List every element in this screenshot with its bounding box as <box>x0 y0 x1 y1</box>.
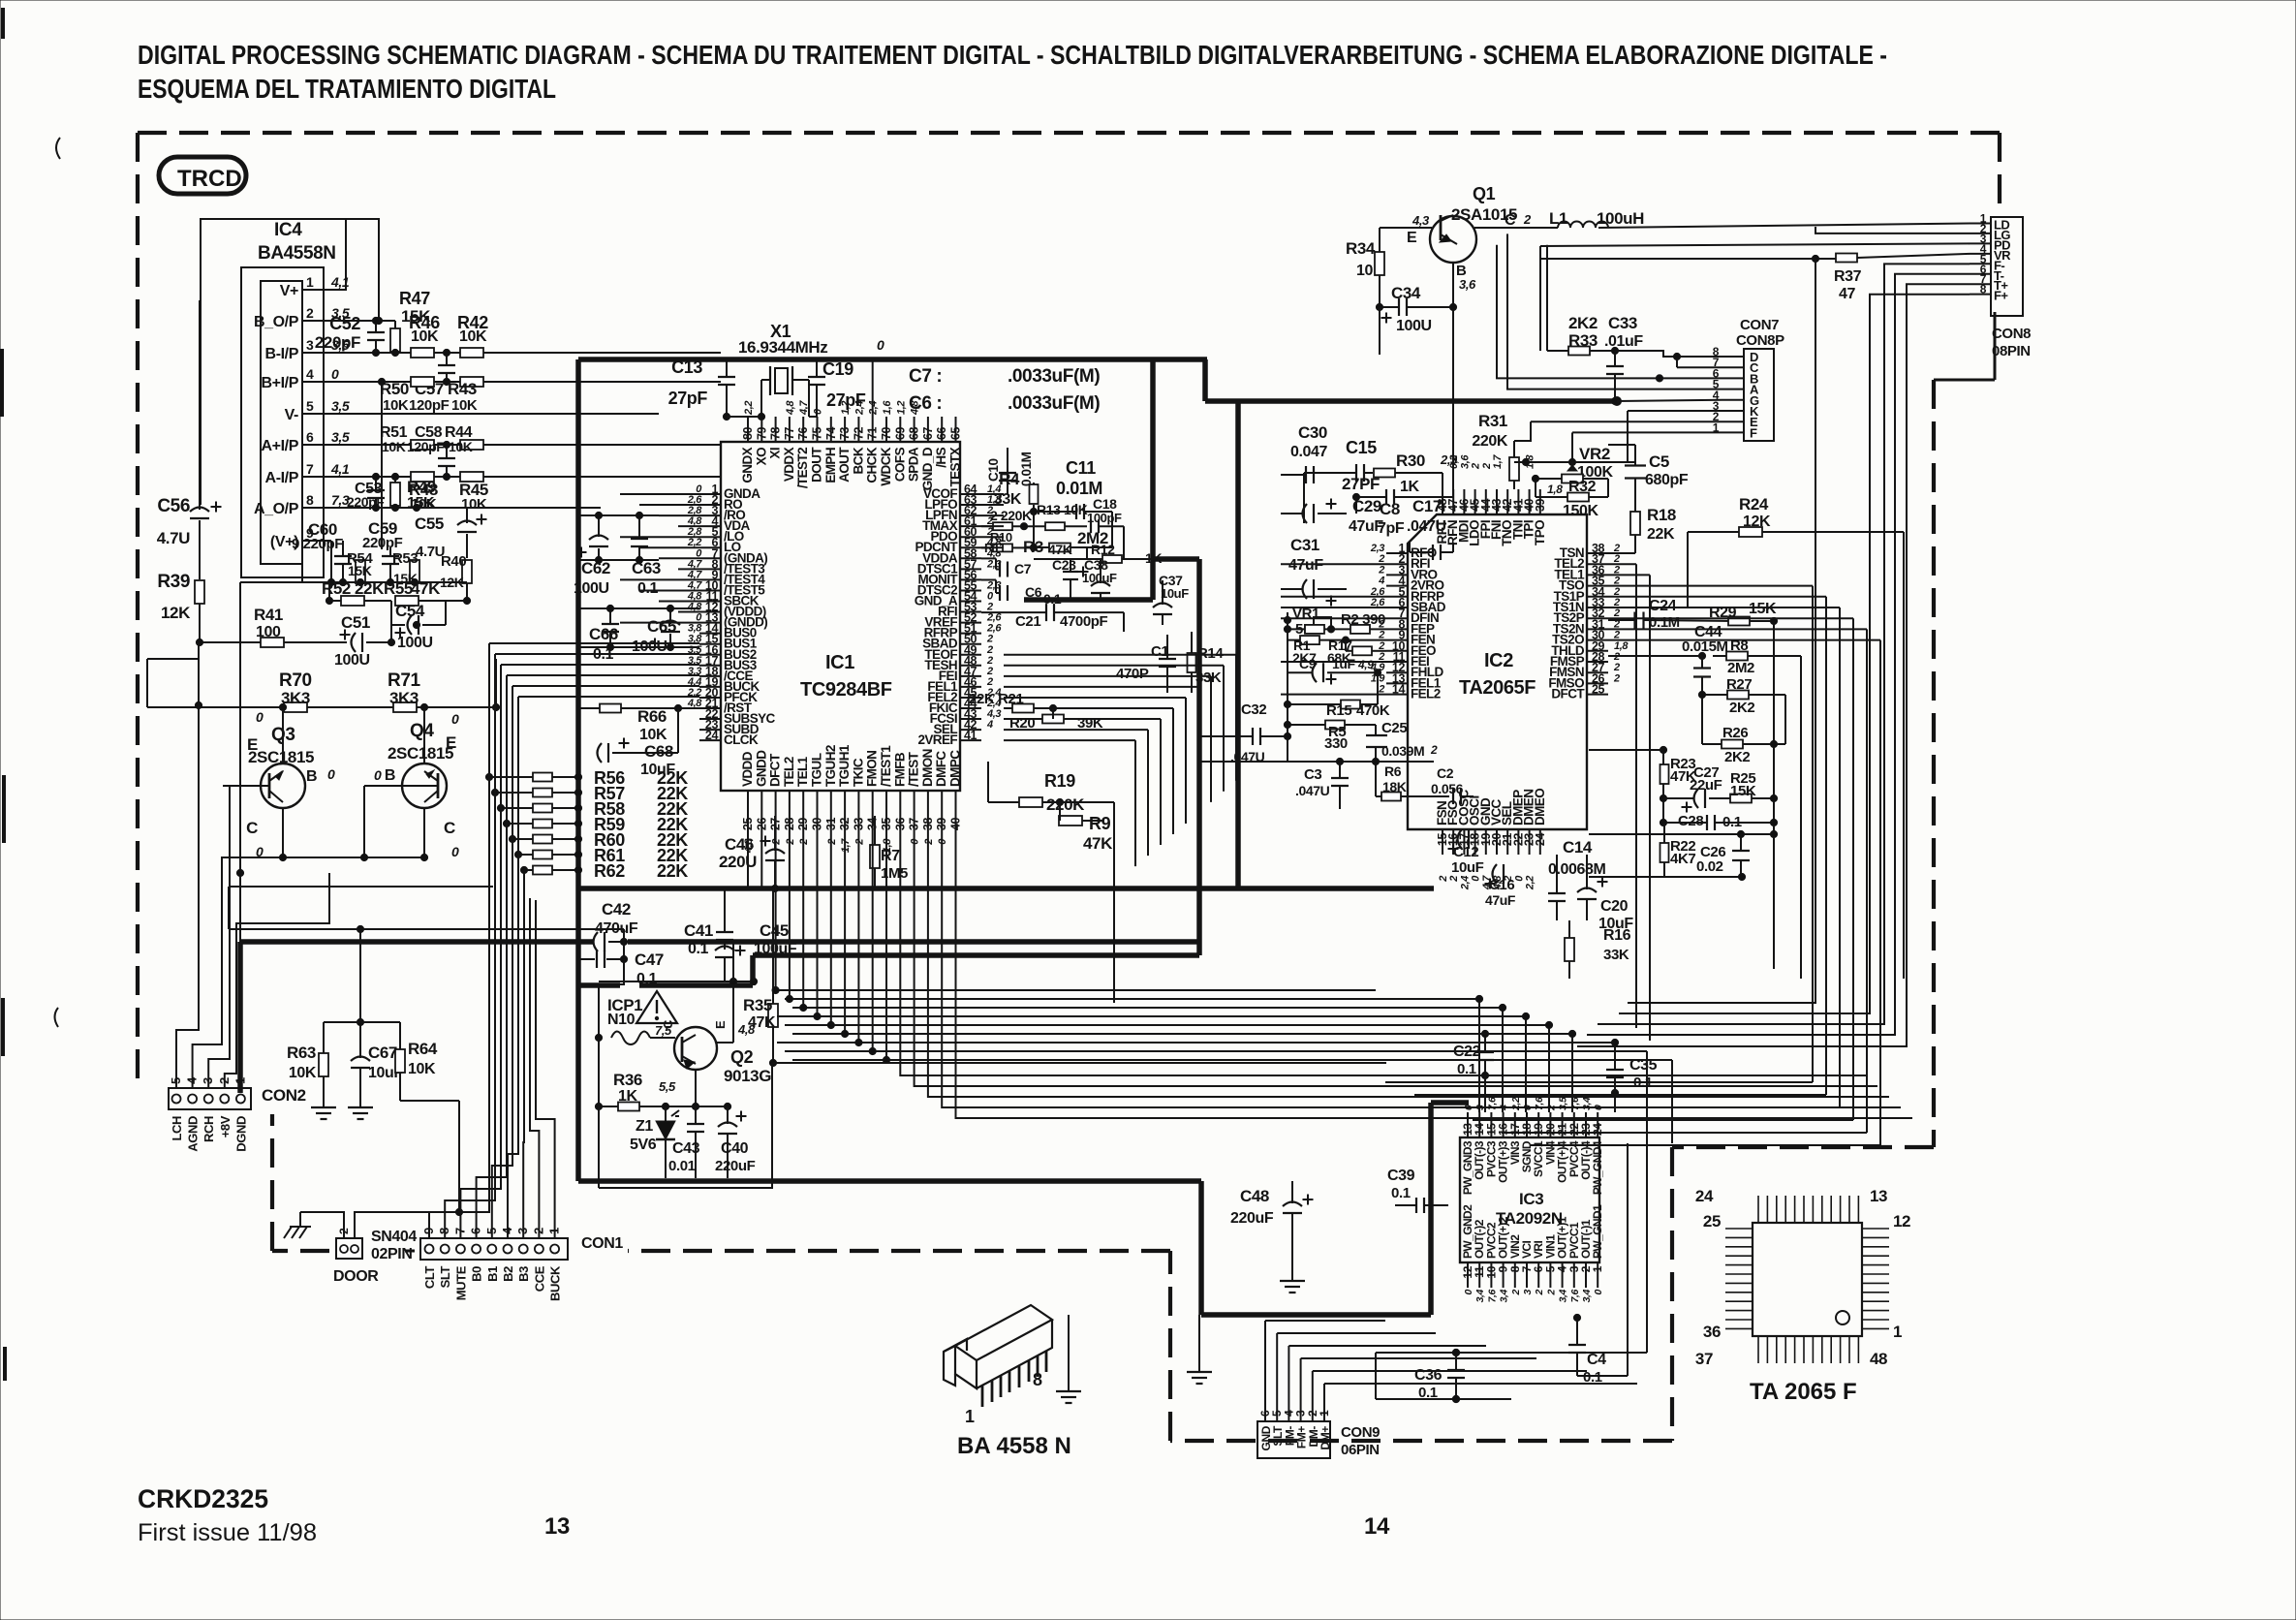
svg-text:C33: C33 <box>1608 314 1637 332</box>
svg-text:C68: C68 <box>644 742 673 761</box>
resistor R34 <box>1375 252 1384 275</box>
svg-text:.0033uF(M): .0033uF(M) <box>1008 366 1100 387</box>
svg-text:Z1: Z1 <box>636 1118 653 1135</box>
svg-text:75: 75 <box>811 426 824 440</box>
svg-text:CON7: CON7 <box>1740 317 1779 333</box>
svg-text:16.9344MHz: 16.9344MHz <box>738 338 827 357</box>
svg-text:C20: C20 <box>1600 898 1629 915</box>
svg-text:PW_GND4: PW_GND4 <box>1591 1140 1604 1195</box>
svg-text:C16: C16 <box>1489 877 1514 893</box>
svg-text:13: 13 <box>544 1513 570 1540</box>
svg-text:0: 0 <box>374 767 382 783</box>
svg-text:C21: C21 <box>1015 613 1040 630</box>
connector CON9 6-pin <box>1257 1421 1330 1458</box>
resistor R29 15K <box>1728 617 1750 626</box>
resistor R24 12K <box>1739 527 1762 537</box>
svg-text:69: 69 <box>893 426 907 440</box>
wires to CON7 <box>1615 351 1722 357</box>
svg-text:73: 73 <box>838 426 852 440</box>
svg-text:4,8: 4,8 <box>687 698 702 709</box>
svg-text:36: 36 <box>1703 1323 1721 1341</box>
BA4558N package drawing <box>944 1305 1052 1388</box>
svg-text:TA 2065 F: TA 2065 F <box>1750 1379 1857 1405</box>
svg-text:08PIN: 08PIN <box>1992 343 2031 359</box>
capacitor C57 <box>438 364 455 366</box>
svg-text:R43: R43 <box>448 380 477 398</box>
svg-text:CCE: CCE <box>532 1265 546 1292</box>
svg-text:220uF: 220uF <box>715 1158 756 1174</box>
svg-text:2,3: 2,3 <box>1370 543 1384 554</box>
resistor R14 33K <box>1188 653 1196 672</box>
svg-text:220pF: 220pF <box>315 333 360 352</box>
svg-text:/TEST1: /TEST1 <box>879 745 893 787</box>
svg-text:8: 8 <box>306 492 314 508</box>
svg-text:C25: C25 <box>1381 720 1407 736</box>
resistor R53 <box>410 560 419 583</box>
chassis ground near DOOR <box>290 1226 311 1228</box>
svg-text:C13: C13 <box>671 358 702 377</box>
bundle IC2 right pins to lower right <box>1608 563 1636 565</box>
svg-text:R27: R27 <box>1726 676 1752 693</box>
svg-text:0.01: 0.01 <box>668 1158 696 1174</box>
resistor R30 1K <box>1374 469 1395 478</box>
svg-text:TA2065F: TA2065F <box>1459 677 1536 699</box>
resistor R52 <box>341 596 364 606</box>
capacitor C59 <box>382 555 399 557</box>
connector CON7 CON8P <box>1744 349 1774 441</box>
svg-text:0: 0 <box>451 844 459 859</box>
svg-text:1M5: 1M5 <box>881 865 908 882</box>
svg-text:2: 2 <box>1378 564 1384 576</box>
svg-text:B2: B2 <box>501 1266 515 1282</box>
svg-text:C18: C18 <box>1093 496 1117 512</box>
wire Q2 base <box>695 1070 697 1106</box>
capacitor C6 small <box>999 585 1001 601</box>
svg-text:BA4558N: BA4558N <box>258 243 336 264</box>
svg-text:220uF: 220uF <box>1230 1210 1274 1227</box>
resistor R49 <box>390 483 400 506</box>
svg-text:C24: C24 <box>1649 598 1677 614</box>
resistor R71 <box>393 702 417 712</box>
svg-text:67: 67 <box>921 426 935 440</box>
bundle from IC1 left to down <box>488 643 490 777</box>
wire C4 bottom <box>1577 1375 1628 1377</box>
svg-text:XI: XI <box>768 448 783 459</box>
svg-text:R13 10K: R13 10K <box>1037 502 1088 517</box>
svg-text:E: E <box>446 733 456 752</box>
svg-text:CON1: CON1 <box>581 1235 623 1252</box>
svg-text:150K: 150K <box>1563 503 1598 519</box>
svg-text:R19: R19 <box>1044 771 1075 791</box>
svg-text:R16: R16 <box>1603 927 1631 944</box>
capacitor C56 <box>190 517 209 519</box>
svg-text:2,3: 2,3 <box>1440 452 1458 467</box>
svg-text:14: 14 <box>1392 683 1406 697</box>
svg-text:Q1: Q1 <box>1473 184 1496 203</box>
svg-text:C67: C67 <box>368 1044 397 1062</box>
thick power rails <box>578 357 1207 362</box>
bundle IC1 bottom pin drops <box>747 816 749 888</box>
svg-text:100U: 100U <box>334 652 370 669</box>
wire CON8 pin4 VR <box>1540 258 1815 260</box>
svg-text:R71: R71 <box>388 670 420 691</box>
capacitor C29 47uF <box>1313 504 1315 523</box>
svg-text:7,6: 7,6 <box>1569 1289 1581 1302</box>
svg-text:0: 0 <box>327 766 335 782</box>
svg-text:BCK: BCK <box>851 447 865 474</box>
svg-text:/HS: /HS <box>934 447 948 467</box>
svg-text:CLCK: CLCK <box>724 732 759 747</box>
capacitor C55 <box>457 531 477 533</box>
svg-text:C6: C6 <box>1025 584 1042 600</box>
svg-text:3,4: 3,4 <box>1581 1289 1593 1302</box>
op-amp IC1 TC9284BF main DSP block <box>721 442 960 791</box>
svg-text:10K: 10K <box>461 496 487 513</box>
svg-text:22K R21: 22K R21 <box>969 691 1023 707</box>
svg-text:25: 25 <box>1592 683 1605 697</box>
svg-text:CRKD2325: CRKD2325 <box>138 1484 268 1513</box>
svg-text:GND_D: GND_D <box>920 447 935 490</box>
svg-text:8: 8 <box>1980 283 1987 296</box>
svg-text:41: 41 <box>964 729 977 742</box>
svg-text:1: 1 <box>1893 1323 1902 1341</box>
svg-text:R41: R41 <box>254 606 283 624</box>
svg-text:C34: C34 <box>1391 284 1421 302</box>
svg-text:.047U: .047U <box>1407 518 1446 535</box>
svg-text:A_O/P: A_O/P <box>254 501 299 517</box>
svg-text:DOOR: DOOR <box>333 1268 379 1285</box>
svg-text:0.02: 0.02 <box>1696 858 1723 875</box>
bundle IC1 right pins rightward staircase <box>1004 654 1236 656</box>
wire CON8 pin8 F+ <box>1870 295 1970 306</box>
Q2 box thin outline <box>599 1063 772 1188</box>
svg-text:4,1: 4,1 <box>330 461 350 477</box>
svg-text:1,2: 1,2 <box>895 401 907 415</box>
resistor R16 33K <box>1565 938 1574 961</box>
transistor Q4 2SC1815 <box>402 763 447 808</box>
capacitor C34 100U <box>1398 298 1400 316</box>
svg-text:MUTE: MUTE <box>453 1265 468 1300</box>
svg-text:1K: 1K <box>1400 479 1419 495</box>
resistor R37 47 <box>1836 254 1857 263</box>
svg-text:AGND: AGND <box>186 1116 201 1152</box>
svg-text:4: 4 <box>986 719 993 731</box>
svg-text:2SC1815: 2SC1815 <box>388 744 453 763</box>
transistor Q2 9013G <box>674 1027 717 1070</box>
svg-text:4.7U: 4.7U <box>157 529 190 547</box>
svg-text:2M2: 2M2 <box>1727 660 1754 676</box>
op-amp IC2 TA2065F analog block <box>1408 514 1587 829</box>
svg-text:100uH: 100uH <box>1597 209 1644 228</box>
wire Q3 Q4 emitter rail <box>147 706 284 708</box>
svg-text:R36: R36 <box>613 1071 642 1089</box>
svg-text:2,4: 2,4 <box>1459 876 1471 890</box>
svg-text:25: 25 <box>1703 1212 1721 1231</box>
resistor R31 220K vertical <box>1509 457 1519 481</box>
capacitor C51 <box>361 633 363 652</box>
svg-text:R37: R37 <box>1834 268 1862 285</box>
svg-text:70: 70 <box>880 426 893 440</box>
resistor R21 22K <box>1012 704 1034 713</box>
resistor R18 22K <box>1630 512 1640 535</box>
svg-text:6: 6 <box>306 429 314 445</box>
svg-text:C47: C47 <box>635 950 664 969</box>
resistor R27 2K2 <box>1727 691 1749 700</box>
transistor Q1 2SA1015 <box>1430 216 1476 263</box>
svg-text:C4: C4 <box>1587 1352 1606 1368</box>
svg-text:10K: 10K <box>383 397 409 414</box>
svg-text:R47: R47 <box>399 289 430 308</box>
resistor R70 <box>284 702 307 712</box>
svg-text:CON8P: CON8P <box>1736 332 1784 349</box>
svg-text:2K2: 2K2 <box>1568 314 1598 332</box>
dashed border frame <box>138 131 2000 135</box>
svg-text:2: 2 <box>1510 1289 1522 1295</box>
svg-text:27pF: 27pF <box>826 390 866 410</box>
0.039M cap <box>1366 746 1387 748</box>
svg-text:100U: 100U <box>397 635 433 651</box>
svg-text:72: 72 <box>852 426 865 440</box>
svg-text:DFCT: DFCT <box>1551 687 1585 701</box>
svg-text:0.01M: 0.01M <box>1056 479 1102 498</box>
resistor R11 47K <box>993 544 1012 551</box>
svg-text:GNDD: GNDD <box>754 750 768 787</box>
svg-text:0.047: 0.047 <box>1290 444 1328 460</box>
capacitor C54 <box>418 615 419 635</box>
svg-text:TGUL: TGUL <box>810 753 824 787</box>
svg-text:2: 2 <box>1613 672 1620 684</box>
svg-text:C6 :: C6 : <box>909 393 942 414</box>
svg-text:R26: R26 <box>1722 725 1748 741</box>
svg-text:5V6: 5V6 <box>630 1137 657 1153</box>
svg-text:TGUH2: TGUH2 <box>823 745 838 787</box>
svg-text:2,2: 2,2 <box>743 401 755 416</box>
svg-text:10K: 10K <box>411 328 439 345</box>
svg-text:DFCT: DFCT <box>768 753 783 787</box>
resistor R44 <box>460 440 483 450</box>
svg-text:2K2: 2K2 <box>1729 700 1754 716</box>
svg-text:V-: V- <box>285 407 298 423</box>
svg-text:C23: C23 <box>1052 557 1076 573</box>
svg-text:C19: C19 <box>822 359 853 379</box>
svg-text:SLT: SLT <box>438 1266 452 1289</box>
svg-text:C1: C1 <box>1151 643 1168 660</box>
wire CON8 pin6 T- <box>1895 274 1970 285</box>
svg-text:E: E <box>1407 230 1417 246</box>
svg-text:R12: R12 <box>1091 542 1115 557</box>
svg-text:10K: 10K <box>289 1065 317 1081</box>
svg-text:DGND: DGND <box>233 1116 248 1152</box>
svg-text:13: 13 <box>1870 1187 1887 1205</box>
capacitor C13 <box>718 376 735 378</box>
svg-text:B_O/P: B_O/P <box>254 314 299 330</box>
svg-text:RCH: RCH <box>202 1116 216 1142</box>
svg-text:R35: R35 <box>743 996 772 1014</box>
resistor R19 220K <box>1019 797 1042 807</box>
svg-text:R40: R40 <box>441 553 466 570</box>
svg-text:2: 2 <box>1534 1289 1545 1295</box>
svg-text:33K: 33K <box>1195 670 1222 686</box>
svg-text:3,6: 3,6 <box>1459 454 1471 469</box>
svg-text:R14: R14 <box>1197 645 1224 662</box>
svg-text:C39: C39 <box>1387 1168 1415 1184</box>
svg-text:TEL2: TEL2 <box>782 757 796 787</box>
svg-text:C28: C28 <box>1678 813 1703 829</box>
svg-text:66: 66 <box>935 426 948 440</box>
svg-text:12: 12 <box>1893 1212 1910 1231</box>
wire CON8 pin2 LG <box>1815 227 1970 234</box>
wire IC4 pin rows to IC1 <box>324 320 379 322</box>
svg-text:0.1: 0.1 <box>688 941 709 957</box>
capacitor C8 7pF <box>1385 489 1387 505</box>
svg-text:C66: C66 <box>589 625 618 643</box>
svg-text:FEL2: FEL2 <box>1411 687 1441 701</box>
svg-text:10uF: 10uF <box>1161 586 1189 601</box>
svg-text:0: 0 <box>1593 1289 1604 1294</box>
resistor R9 47K <box>1059 816 1082 826</box>
svg-text:0.1: 0.1 <box>1583 1369 1602 1386</box>
svg-text:SN404: SN404 <box>371 1229 417 1245</box>
svg-text:100: 100 <box>256 624 281 640</box>
svg-text:B-I/P: B-I/P <box>265 346 299 362</box>
svg-text:3,5: 3,5 <box>331 398 350 414</box>
resistor R43 <box>460 377 483 387</box>
svg-text:R30: R30 <box>1396 452 1425 470</box>
svg-text:77: 77 <box>783 426 796 440</box>
svg-text:47K: 47K <box>1048 542 1072 557</box>
svg-text:XO: XO <box>754 448 768 465</box>
svg-text:A-I/P: A-I/P <box>265 470 299 486</box>
svg-text:TKIC: TKIC <box>851 758 865 787</box>
svg-text:CON9: CON9 <box>1341 1424 1380 1441</box>
svg-text:47uF: 47uF <box>1349 518 1383 535</box>
svg-text:15K: 15K <box>407 495 435 512</box>
svg-text:1K: 1K <box>618 1088 637 1105</box>
svg-text:02PIN: 02PIN <box>371 1246 412 1262</box>
resistor R1 2K7 <box>1300 636 1319 644</box>
svg-text:PW_GND1: PW_GND1 <box>1591 1204 1604 1259</box>
svg-text:F: F <box>1750 425 1757 440</box>
svg-text:N10: N10 <box>607 1012 636 1028</box>
svg-text:C56: C56 <box>157 496 190 516</box>
svg-text:BA 4558 N: BA 4558 N <box>957 1433 1071 1459</box>
svg-text:4,8: 4,8 <box>785 400 796 416</box>
svg-text:C11: C11 <box>1066 458 1096 478</box>
svg-text:/TEST: /TEST <box>907 751 921 787</box>
svg-text:24: 24 <box>1534 833 1547 847</box>
svg-text:470P: 470P <box>1116 666 1149 682</box>
svg-text:9013G: 9013G <box>724 1067 771 1085</box>
svg-text:R62: R62 <box>594 861 625 881</box>
R56-R62 resistor ladder <box>533 773 552 782</box>
wire IC4 top loop <box>201 219 379 505</box>
svg-text:R39: R39 <box>157 572 190 592</box>
svg-text:WDCK: WDCK <box>879 447 893 485</box>
ground mid <box>1198 1360 1200 1372</box>
svg-text:2: 2 <box>306 305 314 321</box>
svg-text:4: 4 <box>1378 576 1384 587</box>
svg-text:C: C <box>661 1019 675 1029</box>
svg-text:R31: R31 <box>1478 412 1507 430</box>
svg-text:3: 3 <box>1522 1289 1534 1294</box>
svg-text:VDDD: VDDD <box>740 751 755 787</box>
svg-text:AOUT: AOUT <box>837 447 852 483</box>
svg-text:R24: R24 <box>1739 495 1769 514</box>
svg-text:3,6: 3,6 <box>1459 277 1476 292</box>
svg-text:0.1: 0.1 <box>637 580 659 597</box>
svg-text:2,2: 2,2 <box>1525 876 1536 890</box>
svg-text:3,4: 3,4 <box>1499 1289 1510 1302</box>
svg-text:10K: 10K <box>449 439 473 454</box>
capacitor C47 0.1 <box>596 950 598 968</box>
svg-text:TESTX: TESTX <box>948 447 963 486</box>
IC1 left pins 1-13 wires <box>620 493 699 495</box>
svg-text:220K: 220K <box>1472 433 1507 450</box>
vertical drops to lower right <box>1619 306 1870 1013</box>
svg-text:10K: 10K <box>451 397 478 414</box>
connector SN404 DOOR <box>336 1238 362 1259</box>
svg-text:R4: R4 <box>999 470 1020 488</box>
connector CON8 8-pin <box>1991 217 2023 316</box>
wire lower rail <box>1201 761 1434 763</box>
resistor R40 <box>462 560 472 583</box>
svg-text:2: 2 <box>1471 463 1482 470</box>
wire CON8 pin3 PD <box>1540 243 1970 246</box>
resistor R20 39K <box>1042 715 1064 724</box>
svg-text:79: 79 <box>755 426 768 440</box>
TA2065F package drawing <box>1753 1223 1862 1336</box>
svg-text:C12: C12 <box>1453 844 1478 860</box>
svg-text:15K: 15K <box>1749 601 1777 617</box>
svg-text:0: 0 <box>1463 1289 1474 1294</box>
svg-text:5: 5 <box>306 398 314 414</box>
svg-text:C7 :: C7 : <box>909 366 942 387</box>
svg-text:C30: C30 <box>1298 423 1327 442</box>
svg-text:2: 2 <box>1438 876 1449 883</box>
svg-text:2,2: 2,2 <box>1510 1097 1522 1111</box>
resistor R25 15K <box>1730 794 1752 803</box>
resistor R17 68K <box>1352 646 1372 655</box>
svg-text:R20: R20 <box>1009 715 1035 732</box>
svg-text:1uF: 1uF <box>1332 656 1356 671</box>
svg-text:10: 10 <box>1356 263 1373 279</box>
svg-text:C40: C40 <box>721 1140 749 1157</box>
svg-text:24: 24 <box>705 729 719 742</box>
CON1 wires up staircase <box>429 885 489 1238</box>
svg-text:2VREF: 2VREF <box>917 732 957 747</box>
resistor R66 10K <box>600 704 621 713</box>
svg-text:24: 24 <box>1695 1187 1714 1205</box>
capacitor C68 10uF <box>607 743 609 763</box>
svg-text:7,6: 7,6 <box>1486 1289 1498 1302</box>
capacitor C58 <box>438 457 455 459</box>
svg-text:10K: 10K <box>408 1061 436 1077</box>
svg-text:8: 8 <box>1033 1370 1042 1389</box>
resistor R64 10K <box>395 1049 405 1073</box>
svg-text:0.1: 0.1 <box>1391 1185 1411 1201</box>
svg-text:120pF: 120pF <box>407 439 445 454</box>
svg-text:Q4: Q4 <box>410 721 434 741</box>
svg-text:24: 24 <box>1591 1123 1604 1136</box>
svg-text:TRCD: TRCD <box>177 166 242 192</box>
svg-text:47: 47 <box>1839 286 1855 302</box>
TRCD label <box>159 157 246 194</box>
svg-text:FMON: FMON <box>865 751 880 787</box>
svg-text:R49: R49 <box>407 478 436 496</box>
capacitor C16 47uF <box>1503 864 1505 884</box>
svg-text:15K: 15K <box>1730 783 1756 799</box>
svg-text:R9: R9 <box>1089 814 1111 833</box>
